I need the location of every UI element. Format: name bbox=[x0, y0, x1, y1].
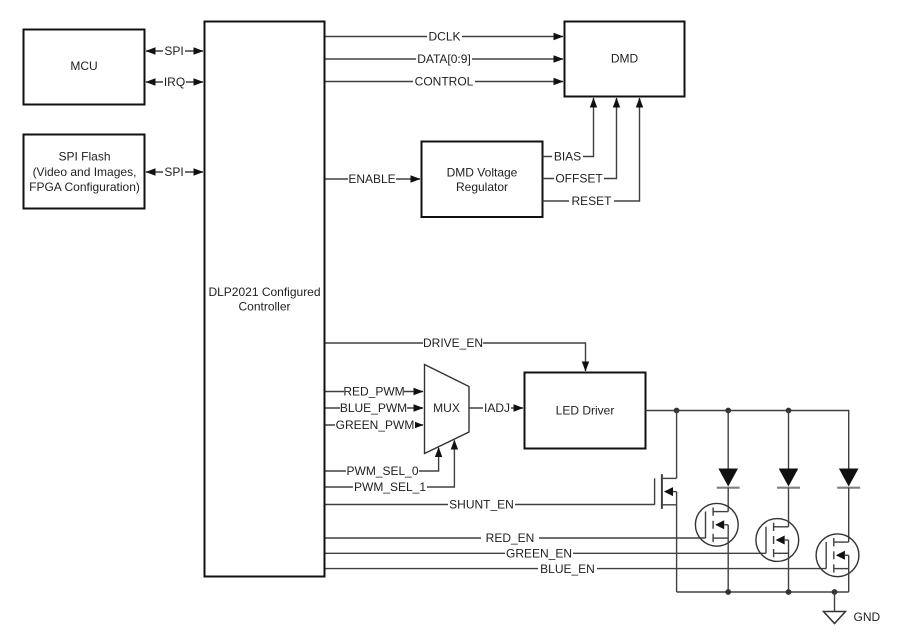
svg-text:CONTROL: CONTROL bbox=[415, 75, 474, 89]
svg-text:PWM_SEL_1: PWM_SEL_1 bbox=[354, 480, 426, 494]
block SPI Flash bbox=[24, 135, 145, 209]
transistor Q2 red MOSFET bbox=[695, 503, 738, 592]
transistor Q3 green MOSFET bbox=[756, 519, 799, 592]
wire DCLK bbox=[326, 30, 564, 44]
svg-text:OFFSET: OFFSET bbox=[555, 172, 603, 186]
svg-text:DMD: DMD bbox=[611, 52, 639, 66]
svg-text:GREEN_EN: GREEN_EN bbox=[506, 547, 572, 561]
transistor Q4 blue MOSFET bbox=[816, 534, 859, 592]
wire BLUE_PWM bbox=[326, 401, 424, 415]
junction rail red bbox=[725, 589, 731, 595]
junction at red branch tap bbox=[725, 408, 731, 414]
wire GREEN_EN bbox=[326, 547, 767, 561]
wire SHUNT_EN bbox=[326, 498, 655, 512]
mux MUX bbox=[425, 365, 470, 454]
wire DATA[0:9] bbox=[326, 52, 564, 66]
block MCU bbox=[24, 30, 145, 105]
svg-text:SPI Flash: SPI Flash bbox=[58, 150, 110, 164]
wire CONTROL bbox=[326, 75, 564, 89]
wire DRIVE_EN bbox=[326, 336, 590, 371]
wire PWM_SEL_0 bbox=[326, 447, 443, 478]
svg-text:IRQ: IRQ bbox=[164, 75, 185, 89]
junction at shunt drain tap bbox=[674, 408, 680, 414]
transistor Q1 shunt MOSFET bbox=[655, 474, 677, 592]
diode D2 green LED bbox=[777, 411, 800, 527]
diode D3 blue LED bbox=[837, 469, 860, 543]
svg-text:BLUE_EN: BLUE_EN bbox=[540, 562, 595, 576]
svg-text:FPGA Configuration): FPGA Configuration) bbox=[29, 180, 140, 194]
svg-text:SPI: SPI bbox=[164, 165, 183, 179]
wire bottom source rail bbox=[677, 591, 849, 593]
block LED Driver bbox=[525, 373, 646, 449]
svg-text:GREEN_PWM: GREEN_PWM bbox=[336, 418, 415, 432]
svg-text:DCLK: DCLK bbox=[428, 30, 460, 44]
svg-text:GND: GND bbox=[854, 610, 881, 624]
block DMD bbox=[565, 22, 685, 97]
wire RED_EN bbox=[326, 531, 706, 545]
wire IADJ bbox=[469, 401, 524, 415]
wire IRQ bbox=[146, 75, 204, 89]
wire GREEN_PWM bbox=[326, 418, 424, 432]
wire SPI (flash to DLP2021) bbox=[146, 165, 204, 179]
wire OFFSET bbox=[543, 98, 621, 186]
block DLP2021 Configured Controller U1 bbox=[205, 22, 325, 577]
svg-text:MCU: MCU bbox=[70, 59, 97, 73]
wire RESET bbox=[543, 98, 644, 209]
svg-text:SHUNT_EN: SHUNT_EN bbox=[449, 498, 514, 512]
svg-text:RED_EN: RED_EN bbox=[486, 531, 535, 545]
ground GND bbox=[824, 592, 881, 624]
wire SPI (MCU to DLP2021) bbox=[146, 44, 204, 58]
wire PWM_SEL_1 bbox=[326, 440, 459, 495]
svg-text:DLP2021 Configured: DLP2021 Configured bbox=[208, 285, 320, 299]
svg-text:ENABLE: ENABLE bbox=[348, 172, 395, 186]
wire shunt drain drop bbox=[676, 411, 678, 479]
svg-text:MUX: MUX bbox=[433, 401, 460, 415]
block DMD Voltage Regulator bbox=[422, 142, 543, 218]
svg-text:RED_PWM: RED_PWM bbox=[343, 385, 404, 399]
svg-text:Regulator: Regulator bbox=[456, 180, 508, 194]
svg-text:SPI: SPI bbox=[164, 44, 183, 58]
svg-text:DATA[0:9]: DATA[0:9] bbox=[417, 52, 471, 66]
diode D1 red LED bbox=[717, 411, 740, 512]
svg-text:DMD Voltage: DMD Voltage bbox=[447, 166, 518, 180]
wire RED_PWM bbox=[326, 385, 424, 399]
junction rail gnd tap bbox=[832, 589, 838, 595]
svg-text:LED Driver: LED Driver bbox=[556, 404, 615, 418]
svg-text:BIAS: BIAS bbox=[554, 150, 581, 164]
wire ENABLE bbox=[326, 172, 421, 186]
svg-text:PWM_SEL_0: PWM_SEL_0 bbox=[346, 464, 418, 478]
svg-text:Controller: Controller bbox=[238, 300, 290, 314]
svg-text:(Video and Images,: (Video and Images, bbox=[33, 165, 137, 179]
junction rail green bbox=[786, 589, 792, 595]
svg-text:RESET: RESET bbox=[571, 194, 612, 208]
wire BIAS bbox=[543, 98, 598, 164]
svg-text:BLUE_PWM: BLUE_PWM bbox=[340, 401, 407, 415]
svg-text:DRIVE_EN: DRIVE_EN bbox=[423, 336, 483, 350]
wire BLUE_EN bbox=[326, 562, 827, 576]
junction at green branch tap bbox=[786, 408, 792, 414]
svg-text:IADJ: IADJ bbox=[484, 401, 510, 415]
wire LED driver output net bbox=[646, 411, 849, 469]
